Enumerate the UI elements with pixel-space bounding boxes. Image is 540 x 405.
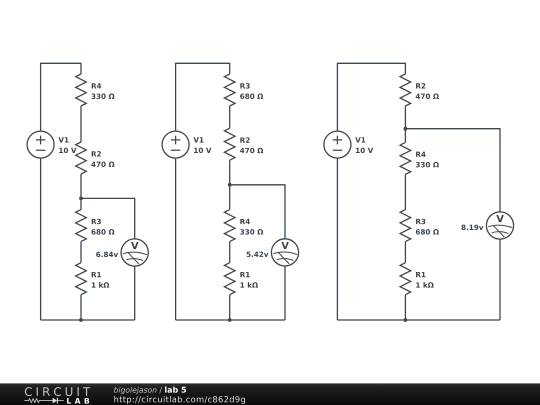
wire: circuit 1 link below R3 [80,242,82,263]
resistor R1 (circuit 3) [400,263,411,295]
wire: circuit 3 branch junction to voltmeter [405,129,500,212]
node: circuit 2 junction dot [228,183,232,187]
label R1 1 kΩ (circuit 3) [416,272,434,288]
wire: circuit 1 voltmeter bottom lead [134,266,136,320]
voltmeter M (circuit 2) [271,239,298,266]
logo LAB text [67,398,89,404]
wire: circuit 3 link below R1 to bottom [404,295,406,320]
label voltmeter reading 8.19v (circuit 3) [461,225,483,230]
wire: circuit 2 bottom wire [176,319,285,321]
resistor R3 (circuit 2) [224,74,235,106]
voltmeter M (circuit 3) [486,212,513,239]
resistor R3 (circuit 1) [76,210,87,242]
label R1 1 kΩ (circuit 2) [240,272,258,288]
node: circuit 1 junction dot [79,197,83,201]
wire: circuit 2 link below R1 to bottom [229,295,231,320]
wire: circuit 2 left wire lower [175,158,177,320]
label V1 10 V (circuit 3) [355,137,373,153]
node: circuit 3 junction dot [404,127,408,131]
wire: circuit 3 left wire lower [336,158,338,320]
label R4 330 Ω (circuit 3) [416,152,439,168]
resistor R1 (circuit 1) [76,263,87,295]
wire: circuit 2 left wire upper [175,63,177,131]
label voltmeter reading 6.84v (circuit 1) [96,252,118,257]
wire: circuit 2 top wire [176,62,230,64]
resistor R2 (circuit 2) [224,128,235,160]
wire: circuit 3 bottom wire [337,319,500,321]
wire: circuit 3 link below R4 [404,174,406,209]
wire: circuit 1 link below R1 to bottom [80,295,82,320]
wire: circuit 1 link below R4 [80,106,82,142]
wire: circuit 2 link below R2 [229,160,231,209]
label R3 680 Ω (circuit 1) [91,219,114,235]
wire: circuit 1 branch junction to voltmeter [81,198,135,239]
label V1 10 V (circuit 1) [58,137,76,153]
label V1 10 V (circuit 2) [193,137,211,153]
wire: circuit 2 branch junction to voltmeter [230,185,285,239]
footer bar [0,383,540,405]
resistor R2 (circuit 1) [76,142,87,174]
resistor R3 (circuit 3) [400,210,411,242]
label R3 680 Ω (circuit 3) [416,219,439,235]
wire: circuit 3 voltmeter bottom lead [499,239,501,320]
wire: circuit 2 link below R3 [229,106,231,128]
logo waveform: wire + resistor squiggle + diode [25,398,64,404]
resistor R2 (circuit 3) [400,74,411,106]
resistor R4 (circuit 3) [400,142,411,174]
wire: circuit 3 top wire [337,62,405,64]
wire: circuit 1 mid column top lead [80,63,82,74]
node: circuit 2 bottom junction dot [228,318,232,322]
footer author/title line [114,387,186,395]
wire: circuit 1 link below R2 [80,174,82,210]
wire: circuit 1 top wire [41,62,81,64]
wire: circuit 1 left wire lower [40,158,42,320]
label R2 470 Ω (circuit 2) [240,137,263,153]
resistor R4 (circuit 2) [224,210,235,242]
wire: circuit 2 voltmeter bottom lead [284,266,286,320]
label R2 470 Ω (circuit 1) [91,151,114,167]
node: circuit 1 bottom junction dot [79,318,83,322]
wire: circuit 3 link below R3 [404,242,406,263]
label R3 680 Ω (circuit 2) [240,83,263,99]
wire: circuit 3 link below R2 [404,106,406,142]
wire: circuit 1 left wire upper [40,63,42,131]
voltage source V1 (circuit 3) [324,131,351,158]
label R4 330 Ω (circuit 2) [240,219,263,235]
logo CIRCUIT outline text [25,387,90,396]
label R2 470 Ω (circuit 3) [416,83,439,99]
wire: circuit 3 mid column top lead [404,63,406,74]
wire: circuit 1 bottom wire [41,319,135,321]
label voltmeter reading 5.42v (circuit 2) [247,252,269,257]
node: circuit 3 bottom junction dot [404,318,408,322]
voltmeter M (circuit 1) [121,239,148,266]
voltage source V1 (circuit 2) [162,131,189,158]
voltage source V1 (circuit 1) [27,131,54,158]
label R4 330 Ω (circuit 1) [91,83,114,99]
resistor R4 (circuit 1) [76,74,87,106]
wire: circuit 2 mid column top lead [229,63,231,74]
label R1 1 kΩ (circuit 1) [92,272,110,288]
resistor R1 (circuit 2) [224,263,235,295]
footer url line [114,396,245,404]
wire: circuit 2 link below R4 [229,242,231,263]
wire: circuit 3 left wire upper [336,63,338,131]
